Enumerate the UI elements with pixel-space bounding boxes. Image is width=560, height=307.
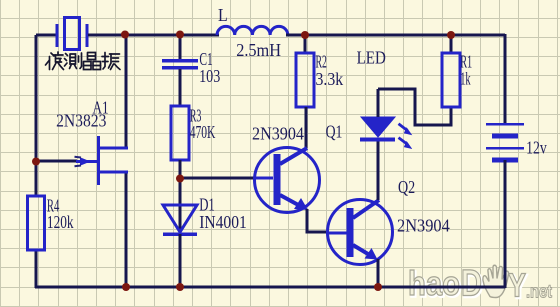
svg-text:L: L (218, 5, 228, 25)
transistor Q1a 2N3904 (left NPN) (255, 148, 320, 213)
svg-text:3.3k: 3.3k (316, 69, 344, 89)
resistor R3 470K (171, 106, 189, 160)
inductor L (217, 26, 288, 35)
svg-text:1k: 1k (460, 69, 470, 89)
svg-text:Q1: Q1 (326, 122, 343, 142)
wire top bus left (36, 34, 57, 37)
svg-text:Y: Y (508, 267, 526, 304)
wire Q2 collector to LED cathode (377, 141, 380, 200)
wire node to Q1 base (180, 177, 255, 180)
wire C1 to R3 (179, 69, 182, 106)
wire left vertical lower (35, 250, 38, 288)
svg-text:470K: 470K (190, 122, 216, 142)
wire D1 bottom lead (179, 234, 182, 288)
crystal Y1 被测晶振 (57, 18, 87, 50)
wire JFET drain vertical (125, 35, 128, 148)
junction node bottom bus / Q2 emitter (374, 283, 382, 291)
svg-text:LED: LED (357, 48, 386, 68)
svg-text:D: D (461, 263, 482, 304)
diode D1 IN4001 (163, 205, 197, 234)
resistor R1 1k (442, 53, 460, 107)
svg-text:2.5mH: 2.5mH (236, 40, 281, 60)
transistor A1 2N3823 JFET (75, 136, 129, 185)
label 被测晶振 (crystal under test) (46, 52, 121, 70)
LED Q1 (360, 117, 412, 149)
wire right vertical lower (battery to bottom bus) (504, 160, 507, 288)
junction node top bus / R2 (301, 31, 309, 39)
capacitor C1 103 (162, 61, 198, 68)
wire Q2 emitter to bottom bus (377, 259, 380, 288)
wire gate from R4 node (36, 160, 77, 163)
resistor R4 120k (28, 196, 45, 250)
watermark haoDIY.net (408, 263, 552, 305)
svg-text:hao: hao (408, 265, 460, 303)
svg-text:2N3904: 2N3904 (397, 216, 450, 236)
junction node gate / R4 (32, 158, 40, 166)
junction node bottom bus / JFET source (122, 283, 130, 291)
wire left vertical upper (35, 35, 38, 196)
svg-text:Q2: Q2 (398, 177, 415, 197)
svg-text:120k: 120k (47, 212, 74, 232)
resistor R2 3.3k (296, 53, 314, 107)
junction node bottom bus / D1 (176, 283, 184, 291)
junction node top bus / R1 (447, 31, 455, 39)
wire LED to R1 route (378, 89, 451, 125)
battery BT1 12v (486, 124, 524, 160)
wire inductor to right corner (286, 34, 505, 37)
junction node R3 / D1 / Q1 base (176, 175, 184, 183)
svg-text:.net: .net (526, 282, 552, 302)
wire R2 top lead (304, 35, 307, 53)
junction node top bus / JFET drain (121, 31, 129, 39)
svg-text:103: 103 (199, 66, 220, 86)
svg-text:2N3904: 2N3904 (252, 123, 304, 143)
wire crystal to inductor (88, 34, 219, 37)
wire Q1 emitter to Q2 base (307, 209, 326, 232)
wire LED anode lead (377, 89, 380, 117)
wire JFET source vertical (125, 172, 128, 288)
wire R3 bottom lead (179, 160, 182, 179)
transistor Q2 2N3904 (326, 200, 393, 265)
wire bottom bus (35, 286, 505, 289)
wire R1 top lead (450, 35, 453, 53)
wire right vertical upper (to battery) (504, 34, 507, 124)
wire R2 to Q1 collector (305, 107, 308, 148)
svg-text:IN4001: IN4001 (199, 212, 247, 232)
wire C1 top lead (179, 35, 182, 60)
svg-text:2N3823: 2N3823 (56, 111, 106, 131)
svg-text:12v: 12v (526, 138, 547, 158)
wire D1 top lead (179, 178, 182, 234)
junction node top bus / C1 (176, 31, 184, 39)
